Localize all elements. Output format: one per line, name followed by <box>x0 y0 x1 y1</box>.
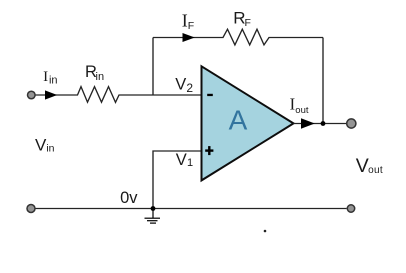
node I_F current arrow <box>183 33 195 42</box>
terminal: output (right) <box>347 119 356 128</box>
terminal: bottom-left <box>27 205 35 213</box>
wire: output from op-amp to terminal <box>294 123 347 125</box>
wire: input from terminal to op-amp inverting input (with R_in zigzag) <box>36 87 202 103</box>
op-amp inverting input minus sign <box>207 94 213 96</box>
svg-text:A: A <box>229 105 248 136</box>
wire: junction vertical up from input node to feedback branch <box>152 38 154 96</box>
svg-text:0v: 0v <box>120 189 138 207</box>
terminal: input (top-left) <box>28 91 36 99</box>
op-amp non-inverting input plus sign <box>205 146 213 155</box>
node I_in current arrow <box>45 90 57 99</box>
ground symbol <box>145 209 161 224</box>
wire: bottom 0v rail <box>36 208 347 210</box>
node: junction dot on 0v rail <box>151 206 156 211</box>
op-amp U1 (A) <box>202 66 294 180</box>
terminal: bottom-right <box>347 205 354 212</box>
stray dot artifact <box>264 230 267 233</box>
node I_out current arrow <box>301 118 315 128</box>
wire: non-inverting input wire <box>153 151 202 209</box>
node: output junction dot <box>321 121 326 126</box>
wire: top feedback wire (with R_F zigzag) <box>153 29 323 45</box>
wire: feedback vertical down to output node <box>322 38 324 124</box>
